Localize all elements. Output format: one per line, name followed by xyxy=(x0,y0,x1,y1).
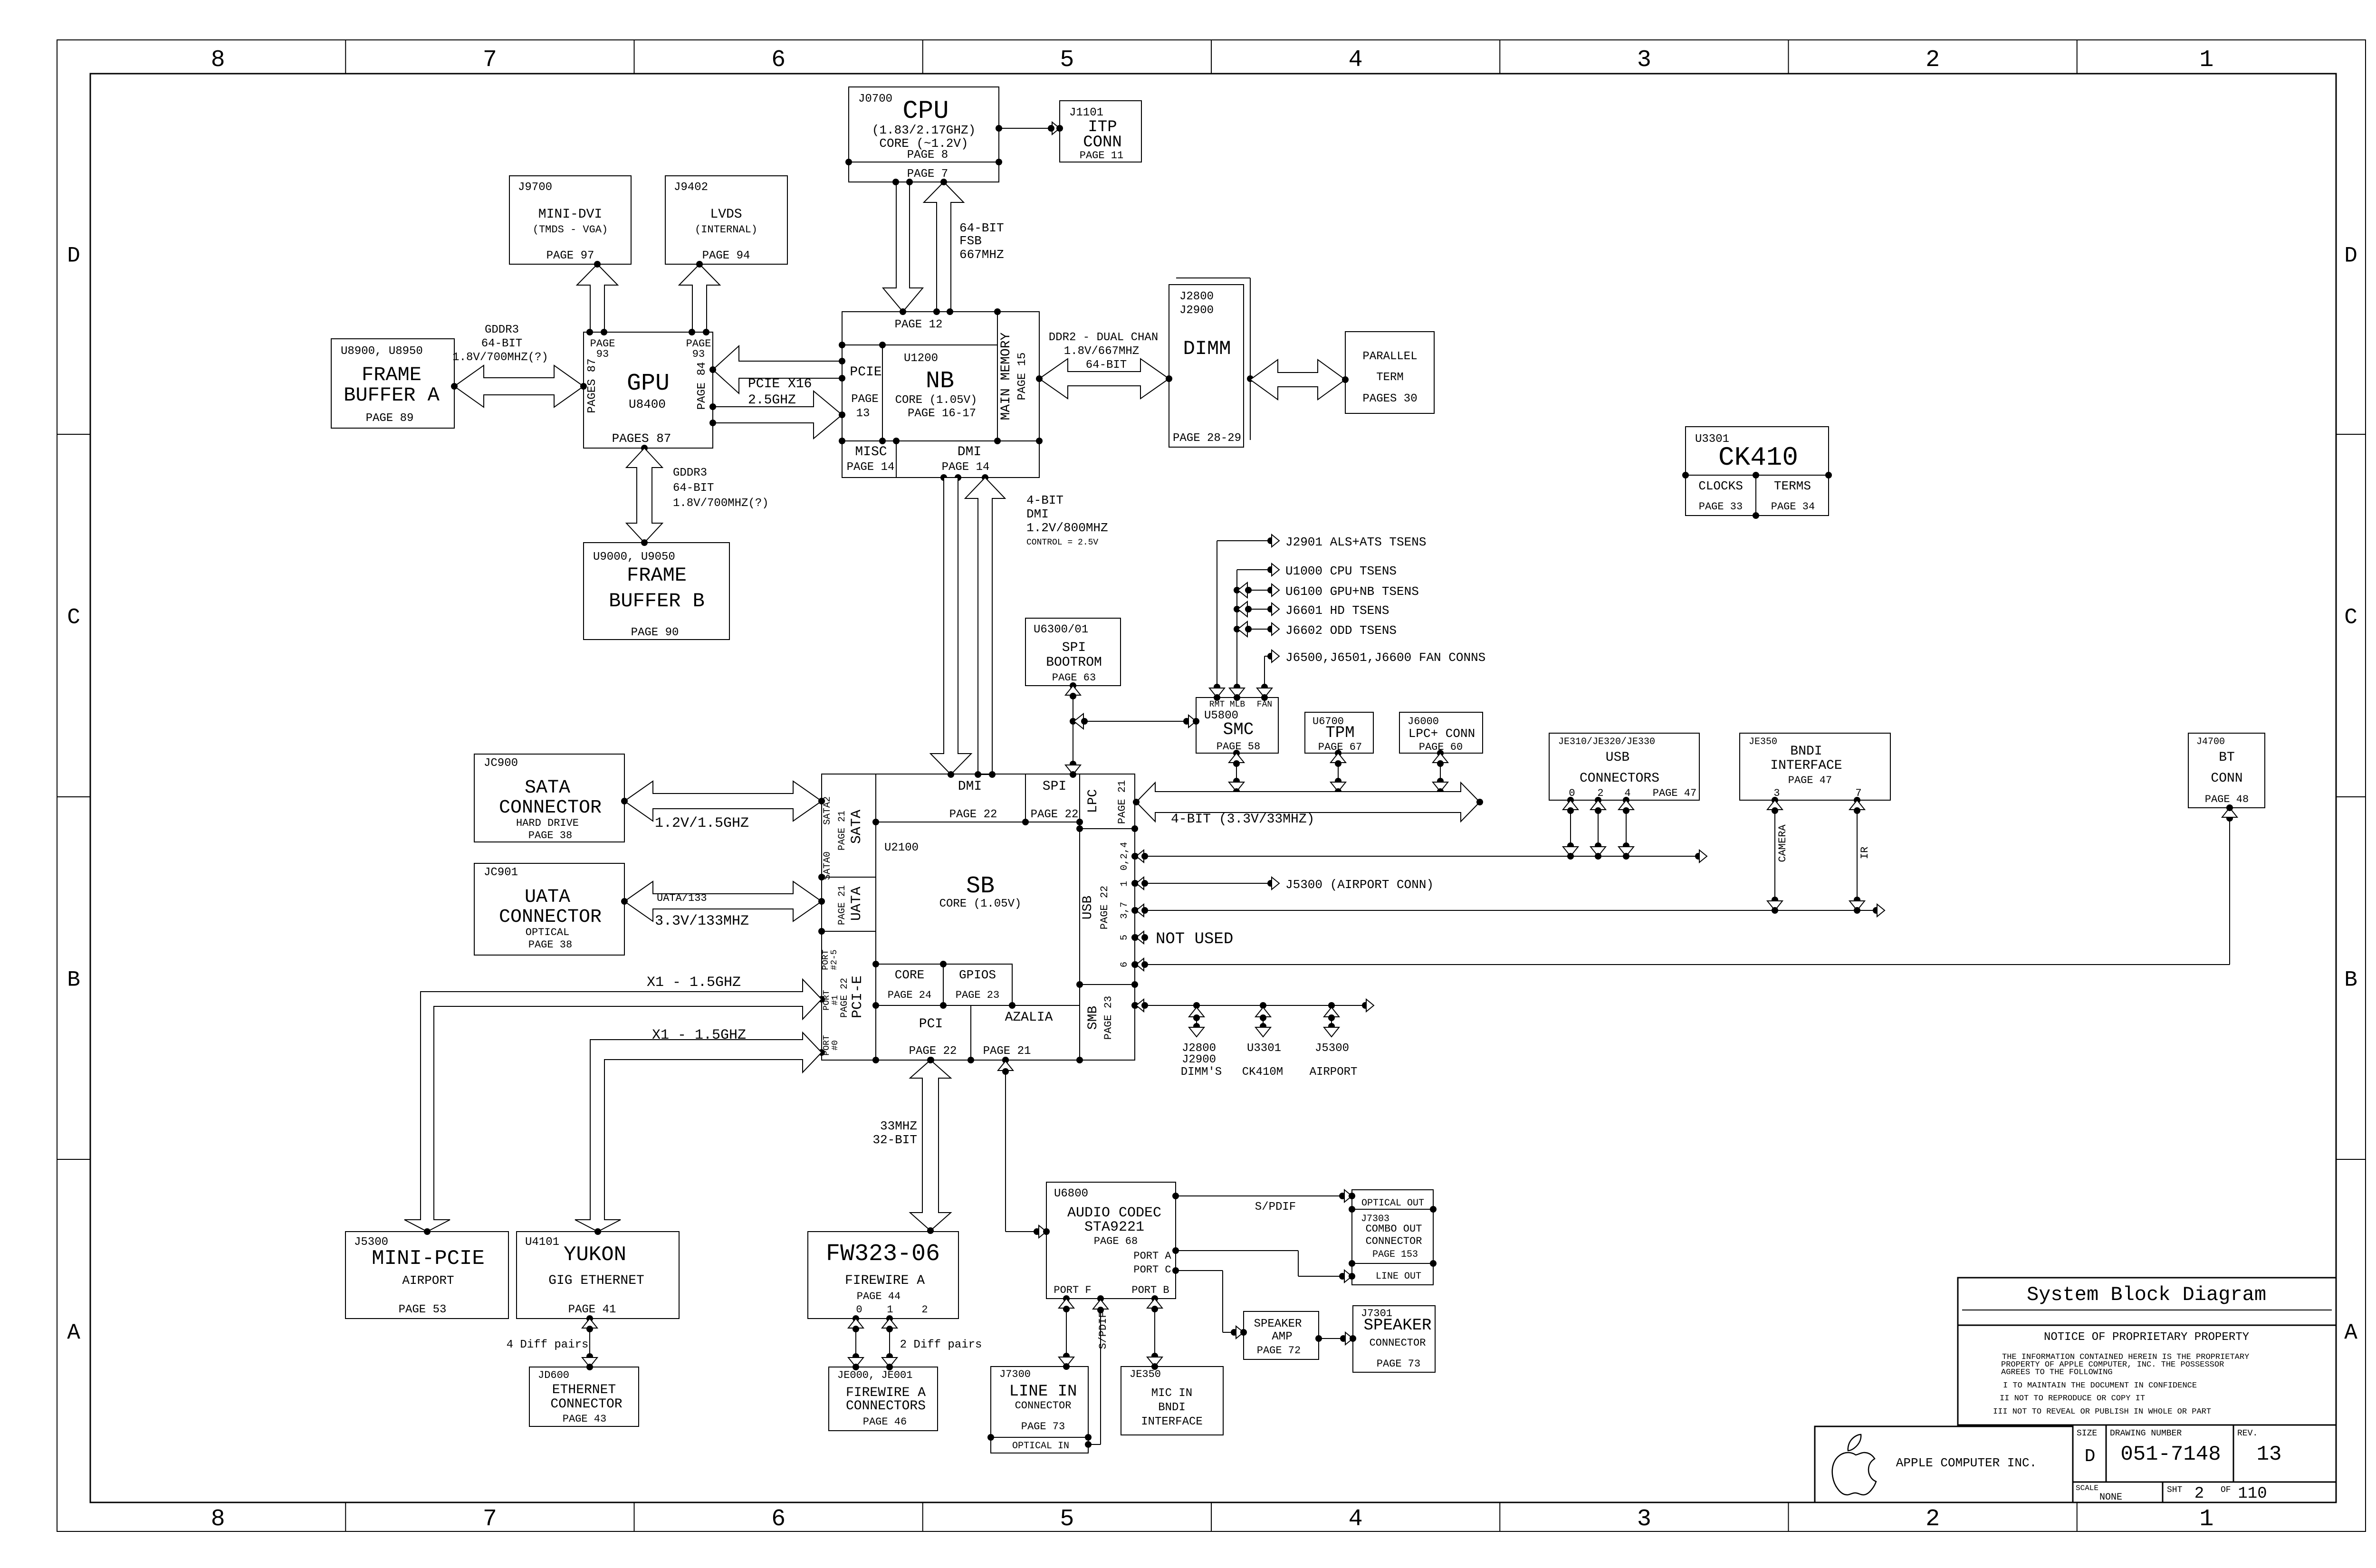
svg-text:6: 6 xyxy=(771,47,786,74)
svg-text:PCIE X16: PCIE X16 xyxy=(748,377,812,392)
svg-text:FRAME: FRAME xyxy=(627,564,687,587)
svg-text:D: D xyxy=(2344,244,2357,268)
svg-text:PORT B: PORT B xyxy=(1131,1284,1169,1296)
svg-text:J0700: J0700 xyxy=(858,93,892,105)
svg-text:USB: USB xyxy=(1606,750,1629,765)
svg-text:2: 2 xyxy=(2194,1485,2204,1503)
svg-text:2 Diff pairs: 2 Diff pairs xyxy=(900,1339,982,1351)
svg-text:PAGE 38: PAGE 38 xyxy=(528,830,572,841)
svg-text:CAMERA: CAMERA xyxy=(1777,824,1789,862)
svg-text:PAGE 38: PAGE 38 xyxy=(528,939,572,951)
svg-text:GDDR3: GDDR3 xyxy=(485,324,519,336)
svg-text:#0: #0 xyxy=(831,1040,840,1051)
svg-text:III NOT TO REVEAL OR PUBLISH I: III NOT TO REVEAL OR PUBLISH IN WHOLE OR… xyxy=(1993,1407,2211,1416)
svg-text:LPC: LPC xyxy=(1086,789,1101,813)
svg-text:CONN: CONN xyxy=(2211,771,2242,786)
svg-text:13: 13 xyxy=(2257,1443,2282,1466)
svg-text:YUKON: YUKON xyxy=(564,1243,626,1267)
svg-text:GPIOS: GPIOS xyxy=(959,968,996,982)
svg-text:CONNECTOR: CONNECTOR xyxy=(499,797,602,819)
svg-text:GIG ETHERNET: GIG ETHERNET xyxy=(548,1273,644,1288)
svg-text:64-BIT: 64-BIT xyxy=(481,337,522,350)
svg-text:PAGE 21: PAGE 21 xyxy=(1116,780,1128,824)
svg-text:8: 8 xyxy=(211,1506,225,1533)
svg-text:2: 2 xyxy=(1926,47,1940,74)
svg-text:PAGE 43: PAGE 43 xyxy=(563,1413,606,1425)
svg-text:CONNECTOR: CONNECTOR xyxy=(1370,1337,1426,1349)
svg-text:LVDS: LVDS xyxy=(710,207,742,222)
svg-text:OPTICAL IN: OPTICAL IN xyxy=(1012,1441,1069,1452)
svg-text:CORE: CORE xyxy=(895,968,924,982)
svg-text:MAIN MEMORY: MAIN MEMORY xyxy=(999,332,1014,420)
svg-text:S/PDIF: S/PDIF xyxy=(1097,1311,1109,1349)
svg-text:MINI-DVI: MINI-DVI xyxy=(538,207,602,222)
svg-text:PAGE 16-17: PAGE 16-17 xyxy=(908,407,976,420)
svg-text:SPI: SPI xyxy=(1043,779,1066,794)
svg-text:7: 7 xyxy=(483,1506,497,1533)
svg-text:LINE IN: LINE IN xyxy=(1009,1383,1077,1401)
svg-text:PAGE 21: PAGE 21 xyxy=(837,885,848,925)
svg-text:System Block Diagram: System Block Diagram xyxy=(2027,1283,2266,1306)
svg-text:0,2,4: 0,2,4 xyxy=(1119,842,1130,870)
svg-text:STA9221: STA9221 xyxy=(1084,1219,1144,1235)
svg-text:SATA: SATA xyxy=(525,777,570,799)
svg-text:PAGES 87: PAGES 87 xyxy=(612,431,671,446)
svg-text:PAGE 22: PAGE 22 xyxy=(1099,886,1111,929)
svg-text:PAGE 44: PAGE 44 xyxy=(857,1291,901,1302)
svg-text:PAGE 24: PAGE 24 xyxy=(888,989,931,1001)
svg-text:TPM: TPM xyxy=(1325,724,1354,742)
svg-text:BUFFER B: BUFFER B xyxy=(609,590,705,612)
svg-text:32-BIT: 32-BIT xyxy=(872,1133,917,1147)
svg-text:PAGES 87: PAGES 87 xyxy=(586,358,599,413)
svg-text:PAGE 41: PAGE 41 xyxy=(568,1303,616,1316)
svg-text:HARD DRIVE: HARD DRIVE xyxy=(516,817,579,829)
svg-text:J2800: J2800 xyxy=(1179,290,1214,303)
svg-text:DRAWING NUMBER: DRAWING NUMBER xyxy=(2110,1429,2182,1438)
svg-text:0: 0 xyxy=(856,1304,862,1316)
svg-text:(TMDS - VGA): (TMDS - VGA) xyxy=(533,224,608,236)
svg-text:#2-5: #2-5 xyxy=(830,949,839,970)
svg-text:PORT C: PORT C xyxy=(1133,1264,1171,1276)
svg-text:UATA: UATA xyxy=(849,887,865,921)
svg-text:GPU: GPU xyxy=(627,370,670,397)
svg-text:PAGE 84: PAGE 84 xyxy=(696,362,709,410)
svg-text:I TO MAINTAIN THE DOCUMENT IN: I TO MAINTAIN THE DOCUMENT IN CONFIDENCE xyxy=(2003,1381,2197,1390)
svg-text:13: 13 xyxy=(856,407,870,420)
svg-text:2: 2 xyxy=(921,1304,928,1316)
svg-text:U6300/01: U6300/01 xyxy=(1034,623,1088,636)
svg-text:J2800: J2800 xyxy=(1182,1042,1216,1055)
svg-text:4-BIT (3.3V/33MHZ): 4-BIT (3.3V/33MHZ) xyxy=(1171,812,1314,827)
svg-text:GDDR3: GDDR3 xyxy=(673,467,707,479)
svg-text:PAGE 8: PAGE 8 xyxy=(907,149,948,162)
svg-text:SB: SB xyxy=(966,873,995,900)
svg-text:PAGE 23: PAGE 23 xyxy=(1102,996,1114,1040)
svg-text:PCI: PCI xyxy=(919,1017,943,1032)
svg-text:JC900: JC900 xyxy=(484,757,518,770)
svg-text:JE350: JE350 xyxy=(1749,736,1777,747)
svg-text:DIMM'S: DIMM'S xyxy=(1181,1066,1222,1079)
svg-text:1.8V/667MHZ: 1.8V/667MHZ xyxy=(1064,345,1139,358)
svg-text:NB: NB xyxy=(926,368,954,395)
svg-text:JD600: JD600 xyxy=(538,1369,569,1381)
svg-text:BNDI: BNDI xyxy=(1158,1401,1186,1414)
svg-text:FSB: FSB xyxy=(959,234,982,248)
svg-text:PAGE 11: PAGE 11 xyxy=(1080,150,1123,162)
svg-text:1.2V/800MHZ: 1.2V/800MHZ xyxy=(1026,521,1108,535)
svg-text:LPC+ CONN: LPC+ CONN xyxy=(1408,727,1475,741)
svg-text:CONN: CONN xyxy=(1083,134,1122,152)
svg-text:PAGE 7: PAGE 7 xyxy=(907,168,948,181)
svg-text:UATA: UATA xyxy=(525,887,570,908)
svg-text:1.2V/1.5GHZ: 1.2V/1.5GHZ xyxy=(655,815,749,832)
svg-text:U6800: U6800 xyxy=(1054,1187,1088,1200)
svg-text:PAGE 68: PAGE 68 xyxy=(1094,1235,1138,1247)
svg-text:OPTICAL: OPTICAL xyxy=(526,927,569,938)
svg-text:J6500,J6501,J6600 FAN CONNS: J6500,J6501,J6600 FAN CONNS xyxy=(1285,650,1485,665)
svg-text:4-BIT: 4-BIT xyxy=(1026,493,1063,507)
svg-text:U4101: U4101 xyxy=(525,1236,559,1249)
svg-text:1: 1 xyxy=(2199,47,2213,74)
svg-text:CONNECTOR: CONNECTOR xyxy=(1366,1235,1422,1247)
svg-text:D: D xyxy=(2085,1446,2096,1467)
svg-text:J4700: J4700 xyxy=(2196,736,2225,747)
svg-text:PORT A: PORT A xyxy=(1133,1250,1171,1262)
svg-text:B: B xyxy=(67,968,80,993)
svg-text:CLOCKS: CLOCKS xyxy=(1698,479,1743,493)
svg-text:J5300 (AIRPORT CONN): J5300 (AIRPORT CONN) xyxy=(1285,878,1434,892)
svg-text:PAGE 22: PAGE 22 xyxy=(949,808,997,821)
svg-text:FAN: FAN xyxy=(1257,700,1272,709)
svg-text:RMT: RMT xyxy=(1209,700,1225,709)
svg-text:ETHERNET: ETHERNET xyxy=(552,1383,616,1397)
svg-text:NOTICE OF PROPRIETARY PROPERTY: NOTICE OF PROPRIETARY PROPERTY xyxy=(2044,1331,2249,1344)
svg-text:PORT F: PORT F xyxy=(1054,1284,1091,1296)
svg-text:MISC: MISC xyxy=(855,445,887,459)
svg-text:D: D xyxy=(67,244,80,268)
svg-text:C: C xyxy=(67,605,80,630)
svg-text:CONNECTORS: CONNECTORS xyxy=(846,1399,926,1414)
svg-text:PCI-E: PCI-E xyxy=(850,975,866,1018)
svg-text:PAGE 73: PAGE 73 xyxy=(1377,1358,1420,1370)
svg-text:CORE (1.05V): CORE (1.05V) xyxy=(895,394,977,407)
svg-text:PAGE 23: PAGE 23 xyxy=(956,989,999,1001)
svg-text:CONNECTOR: CONNECTOR xyxy=(550,1397,622,1412)
svg-text:110: 110 xyxy=(2238,1485,2267,1503)
svg-text:PAGE 34: PAGE 34 xyxy=(1771,501,1815,513)
svg-text:4 Diff pairs: 4 Diff pairs xyxy=(507,1339,589,1351)
svg-text:JE000, JE001: JE000, JE001 xyxy=(837,1369,912,1381)
svg-text:NONE: NONE xyxy=(2099,1492,2122,1503)
svg-text:CPU: CPU xyxy=(902,97,948,126)
svg-text:PAGE 89: PAGE 89 xyxy=(366,412,414,425)
svg-text:CK410M: CK410M xyxy=(1242,1066,1283,1079)
svg-text:PAGE 14: PAGE 14 xyxy=(847,461,895,474)
svg-text:A: A xyxy=(67,1320,80,1345)
svg-text:MLB: MLB xyxy=(1230,700,1245,709)
svg-text:BOOTROM: BOOTROM xyxy=(1046,655,1102,670)
svg-text:DDR2 - DUAL CHAN: DDR2 - DUAL CHAN xyxy=(1049,331,1158,344)
svg-text:A: A xyxy=(2344,1320,2357,1345)
svg-text:J9402: J9402 xyxy=(674,181,708,194)
svg-text:PAGE 94: PAGE 94 xyxy=(702,249,750,262)
svg-text:PAGE 28-29: PAGE 28-29 xyxy=(1173,432,1241,445)
svg-text:U2100: U2100 xyxy=(884,841,919,854)
svg-text:J5300: J5300 xyxy=(1315,1042,1349,1055)
svg-text:(1.83/2.17GHZ): (1.83/2.17GHZ) xyxy=(872,123,976,137)
svg-text:5: 5 xyxy=(1060,1506,1074,1533)
svg-text:PAGE 48: PAGE 48 xyxy=(2205,794,2249,805)
svg-text:SMC: SMC xyxy=(1223,720,1254,739)
svg-text:64-BIT: 64-BIT xyxy=(1086,359,1127,372)
svg-text:FIREWIRE A: FIREWIRE A xyxy=(846,1386,926,1400)
svg-text:051-7148: 051-7148 xyxy=(2120,1443,2221,1466)
svg-text:PAGE 21: PAGE 21 xyxy=(837,811,848,851)
svg-text:SATA2: SATA2 xyxy=(822,796,833,825)
svg-text:SPEAKER: SPEAKER xyxy=(1254,1318,1302,1330)
svg-text:PAGE 22: PAGE 22 xyxy=(839,978,850,1018)
svg-text:4: 4 xyxy=(1349,1506,1363,1533)
svg-text:REV.: REV. xyxy=(2237,1429,2258,1438)
svg-text:SIZE: SIZE xyxy=(2077,1429,2097,1438)
svg-text:APPLE COMPUTER INC.: APPLE COMPUTER INC. xyxy=(1896,1456,2037,1470)
svg-text:U3301: U3301 xyxy=(1247,1042,1281,1055)
svg-text:MINI-PCIE: MINI-PCIE xyxy=(372,1247,485,1271)
svg-text:1: 1 xyxy=(1119,881,1130,887)
svg-text:CONNECTOR: CONNECTOR xyxy=(499,907,602,928)
svg-text:J2900: J2900 xyxy=(1182,1053,1216,1066)
svg-text:JE310/JE320/JE330: JE310/JE320/JE330 xyxy=(1558,736,1655,747)
svg-text:DMI: DMI xyxy=(958,779,982,794)
svg-text:PAGE 47: PAGE 47 xyxy=(1653,787,1696,799)
svg-text:U1200: U1200 xyxy=(904,352,938,365)
svg-text:J7300: J7300 xyxy=(999,1368,1031,1380)
svg-text:3: 3 xyxy=(1637,47,1651,74)
svg-text:PAGE 90: PAGE 90 xyxy=(631,626,679,639)
svg-text:J1101: J1101 xyxy=(1069,106,1103,119)
svg-text:33MHZ: 33MHZ xyxy=(880,1119,917,1133)
svg-text:DIMM: DIMM xyxy=(1183,337,1231,360)
svg-text:PAGE 53: PAGE 53 xyxy=(399,1303,447,1316)
svg-text:CONNECTORS: CONNECTORS xyxy=(1580,771,1659,786)
svg-text:COMBO OUT: COMBO OUT xyxy=(1366,1223,1422,1235)
svg-text:PAGE 21: PAGE 21 xyxy=(983,1045,1031,1058)
svg-text:INTERFACE: INTERFACE xyxy=(1141,1415,1203,1428)
svg-text:CORE (1.05V): CORE (1.05V) xyxy=(939,898,1022,910)
svg-text:LINE OUT: LINE OUT xyxy=(1376,1271,1421,1282)
svg-text:4: 4 xyxy=(1349,47,1363,74)
svg-text:AZALIA: AZALIA xyxy=(1005,1010,1053,1025)
svg-text:6: 6 xyxy=(771,1506,786,1533)
svg-text:C: C xyxy=(2344,605,2357,630)
svg-text:5: 5 xyxy=(1119,935,1130,940)
svg-text:PAGE 22: PAGE 22 xyxy=(1031,808,1079,821)
svg-text:1: 1 xyxy=(2199,1506,2213,1533)
svg-text:PAGE 33: PAGE 33 xyxy=(1699,501,1743,513)
svg-text:IR: IR xyxy=(1859,847,1871,859)
svg-text:J6601 HD TSENS: J6601 HD TSENS xyxy=(1285,603,1389,618)
svg-text:PAGES 30: PAGES 30 xyxy=(1362,392,1417,405)
svg-text:667MHZ: 667MHZ xyxy=(959,248,1004,262)
svg-text:PARALLEL: PARALLEL xyxy=(1362,350,1417,363)
svg-text:PAGE 63: PAGE 63 xyxy=(1052,672,1096,684)
svg-text:FRAME: FRAME xyxy=(362,363,422,386)
svg-text:UATA/133: UATA/133 xyxy=(657,892,707,904)
svg-text:OPTICAL OUT: OPTICAL OUT xyxy=(1361,1198,1424,1209)
svg-text:6: 6 xyxy=(1119,962,1130,967)
svg-text:J6000: J6000 xyxy=(1408,716,1439,727)
svg-text:B: B xyxy=(2344,968,2357,993)
svg-text:PAGE 46: PAGE 46 xyxy=(863,1416,907,1428)
svg-text:3.3V/133MHZ: 3.3V/133MHZ xyxy=(655,913,749,929)
svg-text:(INTERNAL): (INTERNAL) xyxy=(695,224,757,236)
svg-text:FIREWIRE A: FIREWIRE A xyxy=(845,1273,925,1288)
svg-text:JE350: JE350 xyxy=(1130,1368,1161,1380)
svg-text:PAGE 12: PAGE 12 xyxy=(895,318,943,331)
svg-text:PORT: PORT xyxy=(821,949,831,970)
svg-text:U8400: U8400 xyxy=(629,397,666,411)
svg-text:X1 - 1.5GHZ: X1 - 1.5GHZ xyxy=(652,1027,746,1043)
svg-text:II NOT TO REPRODUCE OR COPY IT: II NOT TO REPRODUCE OR COPY IT xyxy=(2000,1394,2145,1403)
svg-text:SATA: SATA xyxy=(849,810,865,844)
svg-text:SPI: SPI xyxy=(1062,641,1086,655)
svg-text:93: 93 xyxy=(596,348,609,360)
svg-text:MIC IN: MIC IN xyxy=(1151,1387,1192,1400)
svg-text:BUFFER A: BUFFER A xyxy=(344,384,440,407)
svg-text:J6602 ODD TSENS: J6602 ODD TSENS xyxy=(1285,623,1397,638)
svg-text:AIRPORT: AIRPORT xyxy=(1310,1066,1358,1079)
svg-text:7: 7 xyxy=(483,47,497,74)
svg-text:1: 1 xyxy=(887,1304,893,1316)
svg-text:BT: BT xyxy=(2219,750,2235,765)
svg-text:AGREES TO THE FOLLOWING: AGREES TO THE FOLLOWING xyxy=(2001,1368,2113,1377)
svg-text:BNDI: BNDI xyxy=(1790,744,1822,759)
svg-text:U9000, U9050: U9000, U9050 xyxy=(593,551,675,564)
svg-text:AIRPORT: AIRPORT xyxy=(402,1273,454,1288)
svg-text:PAGE 97: PAGE 97 xyxy=(546,249,594,262)
svg-text:CONNECTOR: CONNECTOR xyxy=(1015,1400,1072,1412)
svg-text:U6100 GPU+NB TSENS: U6100 GPU+NB TSENS xyxy=(1285,584,1419,599)
svg-text:J9700: J9700 xyxy=(518,181,552,194)
svg-text:PAGE: PAGE xyxy=(851,393,879,406)
svg-text:PAGE 22: PAGE 22 xyxy=(909,1045,957,1058)
svg-text:FW323-06: FW323-06 xyxy=(826,1241,940,1268)
svg-text:PAGE 47: PAGE 47 xyxy=(1788,774,1832,786)
svg-text:64-BIT: 64-BIT xyxy=(673,482,714,495)
svg-text:3,7: 3,7 xyxy=(1119,902,1130,919)
svg-text:PAGE 153: PAGE 153 xyxy=(1372,1249,1418,1260)
svg-text:JC901: JC901 xyxy=(484,866,518,879)
svg-text:U8900, U8950: U8900, U8950 xyxy=(341,345,423,358)
svg-text:INTERFACE: INTERFACE xyxy=(1770,758,1842,773)
svg-text:CONTROL = 2.5V: CONTROL = 2.5V xyxy=(1026,538,1098,547)
svg-text:USB: USB xyxy=(1081,896,1095,919)
svg-text:SPEAKER: SPEAKER xyxy=(1364,1317,1432,1335)
svg-text:64-BIT: 64-BIT xyxy=(959,221,1004,235)
svg-text:#1: #1 xyxy=(831,995,840,1005)
svg-text:2.5GHZ: 2.5GHZ xyxy=(748,393,796,408)
svg-text:AMP: AMP xyxy=(1272,1330,1292,1343)
svg-text:NOT USED: NOT USED xyxy=(1156,930,1233,948)
svg-text:TERMS: TERMS xyxy=(1774,479,1811,493)
svg-text:S/PDIF: S/PDIF xyxy=(1255,1201,1296,1214)
svg-text:X1 - 1.5GHZ: X1 - 1.5GHZ xyxy=(647,975,741,991)
svg-text:PAGE 73: PAGE 73 xyxy=(1021,1421,1065,1433)
svg-text:J2901 ALS+ATS TSENS: J2901 ALS+ATS TSENS xyxy=(1285,535,1426,549)
svg-text:SMB: SMB xyxy=(1086,1006,1101,1030)
svg-text:SHT: SHT xyxy=(2167,1485,2183,1495)
svg-text:CK410: CK410 xyxy=(1718,442,1798,473)
svg-text:1.8V/700MHZ(?): 1.8V/700MHZ(?) xyxy=(673,497,769,510)
svg-text:SCALE: SCALE xyxy=(2076,1484,2098,1492)
svg-text:OF: OF xyxy=(2221,1485,2231,1495)
svg-text:PAGE 72: PAGE 72 xyxy=(1257,1345,1301,1357)
svg-text:AUDIO CODEC: AUDIO CODEC xyxy=(1067,1205,1161,1221)
svg-text:1.8V/700MHZ(?): 1.8V/700MHZ(?) xyxy=(452,351,548,364)
svg-text:U1000 CPU TSENS: U1000 CPU TSENS xyxy=(1285,564,1397,578)
svg-text:2: 2 xyxy=(1926,1506,1940,1533)
svg-text:PCIE: PCIE xyxy=(850,365,881,380)
svg-text:TERM: TERM xyxy=(1376,371,1404,384)
svg-text:PAGE 14: PAGE 14 xyxy=(942,461,990,474)
svg-text:PAGE 15: PAGE 15 xyxy=(1016,353,1029,401)
svg-text:8: 8 xyxy=(211,47,225,74)
svg-text:5: 5 xyxy=(1060,47,1074,74)
svg-text:DMI: DMI xyxy=(958,445,981,459)
svg-text:J2900: J2900 xyxy=(1179,304,1214,317)
svg-text:3: 3 xyxy=(1637,1506,1651,1533)
svg-text:DMI: DMI xyxy=(1026,507,1049,521)
svg-text:93: 93 xyxy=(692,348,705,360)
